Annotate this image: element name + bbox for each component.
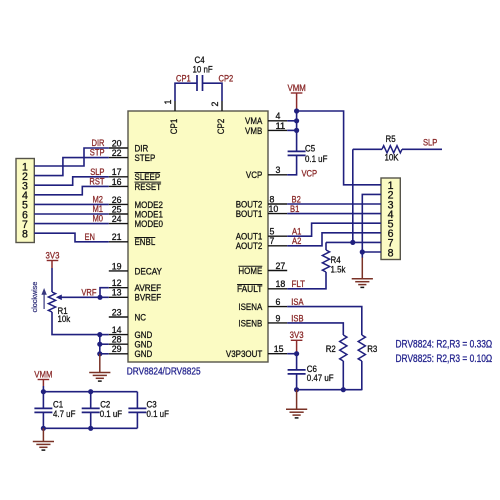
- svg-text:DRV8824: R2,R3 = 0.33Ω: DRV8824: R2,R3 = 0.33Ω: [396, 339, 493, 351]
- svg-text:R4: R4: [331, 255, 341, 265]
- svg-text:R2: R2: [326, 344, 336, 354]
- pin stub STEP (left): [109, 157, 128, 159]
- svg-text:ISENB: ISENB: [238, 318, 262, 329]
- wire net M2 (J1-5 to IC MODE2): [34, 203, 109, 205]
- wire net VMA (IC to VMM): [287, 120, 296, 122]
- connector J2 body (right 8-pin header): [381, 178, 400, 260]
- pin stub BVREF (left): [109, 296, 128, 298]
- svg-text:8: 8: [388, 247, 394, 259]
- wire net GND pin14: [100, 334, 109, 336]
- potentiometer R1: [48, 292, 55, 312]
- svg-text:DRV8824/DRV8825: DRV8824/DRV8825: [127, 367, 201, 378]
- pin stub HOME (right): [268, 270, 287, 272]
- svg-text:1.5k: 1.5k: [331, 264, 346, 274]
- wire net VMM to right header pin1: [297, 111, 381, 185]
- wire net GND (header pin2 to pin8 vertical): [362, 194, 381, 258]
- svg-text:2: 2: [210, 102, 220, 107]
- junction R2 bottom rail: [341, 387, 346, 392]
- svg-text:ENBL: ENBL: [135, 237, 156, 248]
- junction GND pin8: [360, 249, 365, 254]
- wire net CP1 (IC CP1 up to C4): [175, 83, 197, 101]
- wire R5 right to SLP label: [402, 148, 442, 150]
- wire net VCP (C5 to IC VCP): [287, 155, 296, 174]
- svg-text:10: 10: [269, 204, 279, 214]
- pin stub BOUT1 (right): [268, 213, 287, 215]
- pin stub VMA (right): [268, 120, 287, 122]
- wire net M1 (J1-6 to IC MODE1): [34, 213, 109, 215]
- pin stub BOUT2 (right): [268, 203, 287, 205]
- pin stub MODE0 (left): [109, 223, 128, 225]
- svg-text:16: 16: [112, 177, 122, 187]
- svg-text:C3: C3: [147, 400, 157, 410]
- svg-text:M2: M2: [93, 194, 104, 204]
- junction GND28: [97, 342, 102, 347]
- wire net SLP (J1-3 to IC SLEEP): [34, 177, 109, 185]
- svg-text:1: 1: [163, 100, 173, 105]
- ground (right header): [361, 258, 363, 279]
- svg-text:9: 9: [276, 313, 281, 323]
- svg-text:13: 13: [112, 288, 122, 298]
- capacitor C5 plates: [288, 150, 306, 152]
- svg-text:B2: B2: [292, 194, 301, 204]
- svg-text:CP2: CP2: [216, 119, 227, 135]
- svg-text:29: 29: [112, 344, 122, 354]
- pin stub SLEEP (left): [109, 176, 128, 178]
- svg-text:HOME: HOME: [238, 266, 262, 277]
- resistor R5: [382, 146, 402, 153]
- pin stub CP1 (top): [174, 101, 176, 111]
- svg-text:clockwise: clockwise: [30, 282, 39, 313]
- wire V3P3 down to C6: [296, 354, 298, 370]
- wire bottom rail (C6/R2/R3 ground net): [297, 389, 362, 391]
- wire net M0 (J1-7 to IC MODE0): [34, 223, 109, 225]
- wire R4 top: [325, 242, 327, 250]
- pin stub AVREF (left): [109, 287, 128, 289]
- wire net VRF (IC BVREF to R1 wiper): [60, 296, 109, 298]
- wire bottom rail (cap bank): [43, 427, 137, 429]
- wire VMM stub to rail: [42, 380, 44, 387]
- junction FLT-R5 on header pin7 row: [350, 240, 355, 245]
- svg-text:11: 11: [276, 121, 286, 131]
- svg-text:6: 6: [276, 297, 281, 307]
- junction VMA-VMM: [294, 118, 299, 123]
- wire C1 top lead: [42, 392, 44, 409]
- svg-text:FLT: FLT: [292, 279, 306, 289]
- wire net GND (header pin8): [362, 251, 381, 253]
- wire C1 bottom lead: [42, 412, 44, 428]
- wire net GND pin28: [100, 343, 109, 345]
- pin stub GND29 (left): [109, 353, 128, 355]
- junction GND14: [97, 332, 102, 337]
- wire C3 bottom lead: [136, 412, 138, 428]
- wire net GND vertical: [99, 335, 101, 354]
- svg-text:FAULT: FAULT: [237, 284, 262, 295]
- svg-text:3V3: 3V3: [46, 250, 60, 260]
- capacitor C1 plates: [34, 407, 52, 409]
- wire net FAULT (R4 to IC FAULT): [287, 272, 326, 289]
- svg-text:14: 14: [112, 325, 122, 335]
- svg-text:RESET: RESET: [135, 182, 162, 193]
- svg-text:17: 17: [112, 167, 122, 177]
- pin stub VMB (right): [268, 129, 287, 131]
- wire net ISA (IC ISENA to R3): [287, 307, 362, 335]
- resistor R2: [340, 335, 347, 361]
- svg-text:0.1 uF: 0.1 uF: [100, 409, 123, 419]
- pin stub MODE1 (left): [109, 213, 128, 215]
- svg-text:25: 25: [112, 204, 122, 214]
- wire net FLT (header pin7 to R4): [326, 241, 381, 243]
- wire R5 left: [353, 148, 382, 150]
- junction VMM rail: [294, 108, 299, 113]
- svg-text:NC: NC: [135, 312, 147, 323]
- svg-text:BOUT1: BOUT1: [236, 209, 263, 220]
- svg-text:19: 19: [112, 261, 122, 271]
- svg-text:MODE0: MODE0: [135, 219, 163, 230]
- svg-text:VRF: VRF: [81, 287, 97, 297]
- ground (GND cluster): [99, 354, 101, 373]
- wire net A1 (IC AOUT1 to header pin5): [287, 223, 381, 236]
- wire net B1 (IC BOUT1 to header pin4): [287, 213, 381, 215]
- junction V3P3-3V3: [294, 351, 299, 356]
- svg-text:DIR: DIR: [92, 138, 105, 148]
- svg-text:12: 12: [112, 278, 122, 288]
- wire net A2 (IC AOUT2 to header pin6): [287, 233, 381, 246]
- svg-text:0.1 uF: 0.1 uF: [305, 154, 328, 164]
- svg-text:EN: EN: [85, 232, 96, 242]
- svg-text:21: 21: [112, 232, 122, 242]
- svg-text:A2: A2: [292, 236, 301, 246]
- svg-text:VMB: VMB: [245, 126, 262, 137]
- pin stub V3P3OUT (right): [268, 353, 287, 355]
- junction C1 top: [41, 389, 46, 394]
- wire net GND pin29: [100, 353, 109, 355]
- svg-text:27: 27: [276, 261, 286, 271]
- svg-text:VCP: VCP: [246, 170, 262, 181]
- wire C2 bottom lead: [90, 412, 92, 428]
- pin stub GND14 (left): [109, 334, 128, 336]
- resistor R3: [358, 335, 365, 361]
- junction C2 top: [88, 389, 93, 394]
- wire net EN (J1-8 to IC ENBL): [34, 233, 109, 242]
- svg-text:SLP: SLP: [423, 138, 437, 148]
- pin stub DECAY (left): [109, 270, 128, 272]
- wire net B2 (IC BOUT2 to header pin3): [287, 203, 381, 205]
- pin stub FAULT (right): [268, 288, 287, 290]
- svg-text:C1: C1: [53, 400, 63, 410]
- connector J1 body (left 8-pin header): [16, 159, 34, 243]
- wire net STP (J1-2 to IC STEP): [34, 158, 109, 176]
- svg-text:GND: GND: [135, 349, 153, 360]
- pin stub ENBL (left): [109, 241, 128, 243]
- resistor R4: [322, 250, 329, 272]
- svg-text:10 nF: 10 nF: [193, 64, 213, 74]
- wire 3V3 to R1 top: [51, 261, 53, 269]
- svg-text:24: 24: [112, 214, 122, 224]
- pin stub ISENA (right): [268, 306, 287, 308]
- pin stub NC (left): [109, 316, 128, 318]
- svg-text:M1: M1: [93, 204, 104, 214]
- svg-text:M0: M0: [93, 214, 104, 224]
- svg-text:10k: 10k: [58, 314, 71, 324]
- svg-text:CP1: CP1: [176, 74, 191, 84]
- ground (under C6): [296, 390, 298, 410]
- pin stub RESET (left): [109, 185, 128, 187]
- svg-text:DRV8825: R2,R3 = 0.10Ω: DRV8825: R2,R3 = 0.10Ω: [396, 353, 493, 365]
- svg-text:5: 5: [270, 227, 275, 237]
- R1 wiper arrowhead: [56, 295, 62, 301]
- svg-text:0.47 uF: 0.47 uF: [307, 373, 334, 383]
- svg-text:ISENA: ISENA: [238, 302, 262, 313]
- IC U1 DRV8824/DRV8825 body: [128, 111, 268, 362]
- wire net VMM vertical (to VMA/VMB/C5): [296, 111, 298, 151]
- pin stub CP2 (top): [221, 101, 223, 111]
- wire C2 top lead: [90, 392, 92, 409]
- wire C3 top lead: [136, 392, 138, 409]
- wire net V3P3 (IC V3P3OUT to C6): [287, 353, 296, 355]
- svg-text:10K: 10K: [385, 153, 400, 163]
- wire R3 bottom: [361, 361, 363, 390]
- wire net ISB (IC ISENB to R2): [287, 323, 343, 335]
- junction C6 bottom rail: [294, 387, 299, 392]
- svg-text:8: 8: [22, 229, 28, 241]
- pin stub MODE2 (left): [109, 203, 128, 205]
- pin stub VCP (right): [268, 174, 287, 176]
- svg-text:RST: RST: [89, 176, 105, 186]
- svg-text:26: 26: [112, 195, 122, 205]
- wire R2 bottom: [342, 361, 344, 390]
- svg-text:4: 4: [276, 111, 281, 121]
- junction AVREF-BVREF: [97, 295, 102, 300]
- svg-text:3V3: 3V3: [290, 330, 304, 340]
- capacitor C4 plates: [196, 75, 198, 91]
- svg-text:CP1: CP1: [169, 119, 180, 135]
- pin stub GND28 (left): [109, 343, 128, 345]
- svg-text:C5: C5: [305, 144, 315, 154]
- svg-text:0.1 uF: 0.1 uF: [147, 409, 170, 419]
- capacitor C2 plates: [82, 407, 100, 409]
- clockwise annotation arrow: [43, 293, 45, 310]
- wire VMM power stub: [296, 93, 298, 111]
- svg-text:28: 28: [112, 335, 122, 345]
- svg-text:R5: R5: [386, 134, 396, 144]
- svg-text:STP: STP: [90, 148, 105, 158]
- svg-text:20: 20: [112, 138, 122, 148]
- junction GND29: [97, 351, 102, 356]
- wire net DIR (J1-1 to IC DIR): [34, 148, 109, 166]
- wire R1 bottom to GND net: [52, 312, 100, 335]
- svg-text:ISB: ISB: [291, 313, 303, 323]
- svg-text:R3: R3: [367, 344, 377, 354]
- junction VMB-VMM: [294, 128, 299, 133]
- svg-text:VMM: VMM: [34, 369, 52, 379]
- svg-text:V3P3OUT: V3P3OUT: [226, 349, 263, 360]
- svg-text:STEP: STEP: [135, 153, 156, 164]
- svg-text:VMM: VMM: [288, 83, 306, 93]
- pin stub ISENB (right): [268, 322, 287, 324]
- junction C2 bottom: [88, 426, 93, 431]
- wire top rail (VMM cap bank): [43, 391, 137, 393]
- wire 3V3 power stub: [296, 340, 298, 353]
- pin stub AOUT1 (right): [268, 235, 287, 237]
- svg-text:7: 7: [270, 236, 275, 246]
- svg-text:4.7 uF: 4.7 uF: [53, 409, 76, 419]
- wire net CP2 (IC CP2 up to C4): [203, 83, 223, 101]
- svg-text:C2: C2: [100, 400, 110, 410]
- svg-text:AOUT2: AOUT2: [236, 241, 263, 252]
- capacitor C6 plates: [288, 369, 306, 371]
- pin stub AOUT2 (right): [268, 245, 287, 247]
- svg-text:ISA: ISA: [291, 297, 303, 307]
- wire C6 bottom: [296, 374, 298, 390]
- ground (cap bank): [42, 428, 44, 441]
- svg-text:15: 15: [274, 344, 284, 354]
- svg-text:SLP: SLP: [90, 167, 104, 177]
- junction C1 bottom: [41, 426, 46, 431]
- svg-text:18: 18: [276, 279, 286, 289]
- wire net VRF (IC AVREF junction): [100, 288, 109, 298]
- svg-text:23: 23: [112, 307, 122, 317]
- svg-text:A1: A1: [292, 227, 301, 237]
- capacitor C3 plates: [128, 407, 146, 409]
- wire net FLT to R5 (vertical): [352, 149, 354, 242]
- svg-text:8: 8: [270, 194, 275, 204]
- wire net RST (J1-4 to IC RESET): [34, 186, 109, 194]
- svg-text:VCP: VCP: [302, 168, 318, 178]
- svg-text:22: 22: [112, 148, 122, 158]
- pin stub DIR (left): [109, 147, 128, 149]
- svg-text:3: 3: [276, 165, 281, 175]
- svg-text:DECAY: DECAY: [135, 266, 163, 277]
- svg-text:B1: B1: [290, 204, 299, 214]
- svg-text:CP2: CP2: [219, 74, 234, 84]
- wire net VMB (IC to VMM): [287, 129, 296, 131]
- svg-text:BVREF: BVREF: [135, 293, 162, 304]
